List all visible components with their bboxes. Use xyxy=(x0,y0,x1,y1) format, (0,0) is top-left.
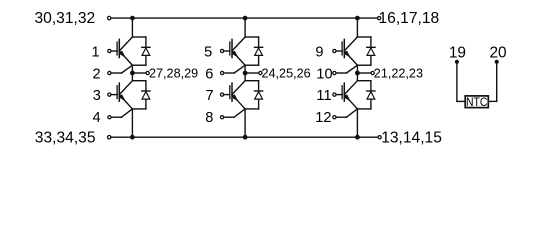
svg-text:20: 20 xyxy=(489,45,506,62)
svg-text:6: 6 xyxy=(205,66,213,82)
svg-text:4: 4 xyxy=(93,110,101,126)
svg-text:3: 3 xyxy=(93,88,101,104)
svg-text:NTC: NTC xyxy=(466,96,487,109)
svg-text:21,22,23: 21,22,23 xyxy=(374,65,423,80)
svg-text:1: 1 xyxy=(91,44,99,60)
svg-text:30,31,32: 30,31,32 xyxy=(35,10,96,27)
svg-text:7: 7 xyxy=(205,88,213,104)
svg-text:13,14,15: 13,14,15 xyxy=(381,130,442,147)
svg-text:27,28,29: 27,28,29 xyxy=(149,65,198,80)
svg-text:12: 12 xyxy=(315,110,331,126)
svg-text:24,25,26: 24,25,26 xyxy=(262,65,311,80)
svg-text:2: 2 xyxy=(93,66,101,82)
svg-text:9: 9 xyxy=(315,44,323,60)
svg-text:33,34,35: 33,34,35 xyxy=(35,130,96,147)
svg-text:5: 5 xyxy=(204,44,212,60)
svg-text:19: 19 xyxy=(449,45,466,62)
svg-text:16,17,18: 16,17,18 xyxy=(379,10,440,27)
svg-text:10: 10 xyxy=(316,66,332,82)
svg-text:8: 8 xyxy=(205,110,213,126)
svg-text:11: 11 xyxy=(316,88,331,104)
